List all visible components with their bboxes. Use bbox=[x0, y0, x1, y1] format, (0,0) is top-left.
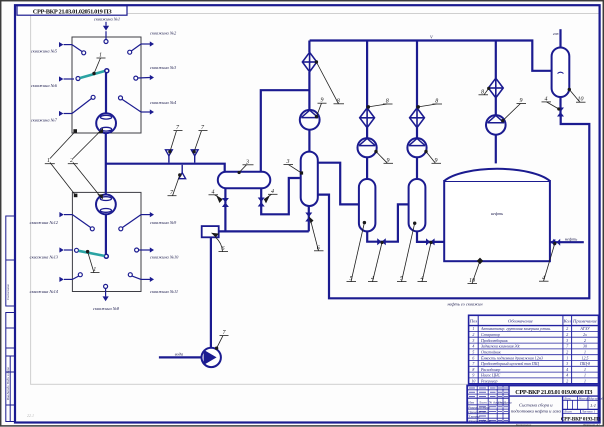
svg-text:Инв.№подл. Подп. и дата: Инв.№подл. Подп. и дата bbox=[6, 367, 10, 401]
wire: G bottom bbox=[559, 97, 561, 116]
leader flag1 bbox=[170, 131, 177, 152]
valve C-right bbox=[258, 198, 265, 207]
svg-text:4: 4 bbox=[545, 95, 548, 102]
selector 1 selected line (teal) bbox=[80, 71, 105, 78]
wire: drain collector y231 bbox=[219, 230, 309, 232]
spec table bbox=[469, 315, 599, 384]
valve before tank bbox=[426, 238, 435, 245]
svg-text:СРР-ВКР 21.03.01.02051.019 ПЗ: СРР-ВКР 21.03.01.02051.019 ПЗ bbox=[33, 8, 112, 15]
leader valve 5a bbox=[373, 243, 383, 282]
leader vessel B bbox=[288, 165, 301, 173]
leader pump 2 bbox=[376, 152, 388, 164]
leader pump 4 bbox=[503, 104, 521, 121]
svg-text:скважина №3: скважина №3 bbox=[150, 65, 177, 70]
svg-text:1: 1 bbox=[584, 351, 586, 355]
svg-text:9: 9 bbox=[520, 98, 523, 104]
vessel G level mark bbox=[558, 72, 564, 73]
wire: selector1 center to meter 1 bbox=[105, 73, 107, 114]
pump 3 bbox=[407, 138, 426, 157]
selector 2 left port 2 (selected) bbox=[59, 247, 78, 252]
valve between 5a 5b bbox=[377, 238, 386, 245]
selector 2 right port 1 bbox=[119, 212, 154, 231]
leader valve B bottom bbox=[310, 218, 319, 251]
marker square sel1 bbox=[73, 129, 77, 133]
svg-text:скважина №2: скважина №2 bbox=[150, 31, 177, 36]
stream labels bbox=[175, 31, 577, 357]
svg-text:3: 3 bbox=[472, 339, 474, 343]
selector 1 right port 2 bbox=[134, 75, 154, 80]
leader pump 1 bbox=[317, 103, 322, 116]
svg-text:Сепаратор: Сепаратор bbox=[481, 333, 500, 337]
drain box bbox=[202, 226, 219, 237]
svg-text:скважина №11: скважина №11 bbox=[150, 289, 178, 294]
svg-text:скважина №14: скважина №14 bbox=[30, 289, 59, 294]
marker triangle meter2 bbox=[97, 194, 103, 199]
position number texts bbox=[47, 53, 584, 337]
selector 2 center node bbox=[104, 254, 108, 258]
flow meter diamond 3 bbox=[410, 108, 425, 128]
svg-text:нефть со скважин: нефть со скважин bbox=[447, 302, 483, 307]
svg-text:2: 2 bbox=[472, 333, 474, 337]
wire: gas manifold bbox=[310, 41, 552, 71]
selector 2 body bbox=[72, 192, 141, 291]
leader diamond 4 bbox=[484, 88, 489, 94]
wire: box to pump bbox=[210, 237, 212, 348]
main stamp bbox=[467, 386, 598, 423]
valve B-bottom bbox=[305, 213, 312, 222]
svg-text:3: 3 bbox=[286, 159, 290, 165]
leader valve C left bbox=[215, 195, 223, 200]
svg-text:10: 10 bbox=[469, 278, 475, 284]
svg-text:скважина №1: скважина №1 bbox=[94, 17, 120, 22]
selector 1 right port 3 bbox=[119, 96, 155, 115]
svg-text:Расходомер: Расходомер bbox=[480, 368, 500, 372]
svg-text:Лист: Лист bbox=[478, 400, 487, 404]
valve under G bbox=[557, 108, 564, 117]
svg-text:4: 4 bbox=[472, 345, 474, 349]
separator C (horizontal vessel) bbox=[218, 172, 270, 188]
pump (bottom) bbox=[202, 348, 221, 367]
svg-text:1: 1 bbox=[584, 368, 586, 372]
svg-text:Лит.: Лит. bbox=[563, 397, 571, 401]
svg-text:Формат А1: Формат А1 bbox=[583, 423, 600, 427]
svg-text:10: 10 bbox=[578, 97, 584, 103]
selector 1 top port bbox=[103, 22, 109, 44]
wire: vessel B outlet B to bottom loop bbox=[318, 116, 590, 298]
leader drain box bbox=[216, 237, 223, 251]
svg-text:Иванов: Иванов bbox=[478, 410, 490, 414]
selector 1 left port 3 bbox=[59, 95, 95, 116]
svg-text:2: 2 bbox=[566, 380, 568, 384]
selector 2 left port 1 bbox=[59, 212, 94, 231]
wire: meter1 to meter2 bbox=[105, 133, 107, 195]
settling vessel 5b bbox=[409, 179, 426, 231]
flow meter diamond 4 bbox=[488, 78, 503, 98]
svg-text:Насос ЦНС: Насос ЦНС bbox=[480, 374, 501, 378]
valve tank inlet bbox=[553, 239, 560, 246]
svg-text:Резервуар: Резервуар bbox=[480, 380, 497, 384]
svg-text:2: 2 bbox=[566, 351, 568, 355]
svg-text:Копировал: Копировал bbox=[515, 423, 532, 427]
svg-text:4: 4 bbox=[421, 275, 424, 282]
svg-text:2х: 2х bbox=[583, 333, 587, 337]
svg-text:5: 5 bbox=[350, 276, 353, 282]
wire: pump suction bbox=[159, 356, 202, 358]
marker square sel2 bbox=[74, 194, 78, 198]
svg-text:скважина №5: скважина №5 bbox=[31, 49, 58, 54]
svg-text:скважина №7: скважина №7 bbox=[31, 118, 58, 123]
marker triangle meter1 bbox=[98, 128, 104, 133]
svg-text:Кол: Кол bbox=[563, 319, 571, 324]
svg-text:Разраб.: Разраб. bbox=[467, 405, 479, 409]
svg-text:Отстойник: Отстойник bbox=[481, 350, 501, 355]
svg-text:скважина №10: скважина №10 bbox=[150, 255, 179, 260]
svg-text:Пробоотборный щелевой тип ПЩ: Пробоотборный щелевой тип ПЩ bbox=[480, 361, 540, 366]
wire: vessel 5b bottom to tank bbox=[417, 231, 444, 242]
svg-text:нефть: нефть bbox=[491, 211, 503, 216]
well labels bbox=[30, 17, 180, 312]
meter separator 1 bbox=[96, 113, 116, 133]
leader sep C bbox=[239, 165, 246, 173]
pump 4 bbox=[486, 115, 506, 135]
wire: meter2 to center node 2 bbox=[105, 214, 107, 254]
svg-text:1: 1 bbox=[472, 327, 474, 331]
pump 1 bbox=[300, 110, 320, 130]
svg-text:СРР-ВКР 21.03.01 019.00.00 ПЗ: СРР-ВКР 21.03.01 019.00.00 ПЗ bbox=[515, 389, 593, 396]
svg-text:9: 9 bbox=[387, 158, 390, 164]
svg-text:Масштаб: Масштаб bbox=[588, 397, 604, 401]
svg-text:Листов 1: Листов 1 bbox=[581, 410, 596, 414]
leader vessel 5a bbox=[351, 223, 364, 282]
wire: capsule C gas offtake bbox=[261, 90, 309, 171]
svg-text:подготовки нефти и газа: подготовки нефти и газа bbox=[511, 408, 562, 413]
svg-text:8: 8 bbox=[435, 99, 438, 105]
svg-text:Задвижка клиновая 30с: Задвижка клиновая 30с bbox=[481, 345, 520, 349]
pump 2 bbox=[358, 138, 377, 157]
stamp small texts bbox=[467, 397, 603, 423]
svg-text:6: 6 bbox=[317, 245, 320, 251]
svg-text:скважина №9: скважина №9 bbox=[150, 220, 177, 225]
leader flag3 bbox=[173, 175, 180, 196]
svg-text:30: 30 bbox=[583, 345, 587, 349]
svg-text:Согласовано: Согласовано bbox=[6, 283, 10, 300]
svg-text:Ёмкость подземная дренажная 12: Ёмкость подземная дренажная 12м3 bbox=[480, 355, 543, 360]
leader diamond 3 bbox=[418, 104, 436, 107]
leader valve 5b bbox=[422, 243, 431, 282]
leader flag2 bbox=[194, 131, 201, 152]
svg-text:6: 6 bbox=[222, 246, 225, 252]
svg-text:Поз: Поз bbox=[469, 319, 478, 324]
svg-text:3: 3 bbox=[566, 339, 568, 343]
gas separator G bbox=[552, 48, 570, 98]
svg-text:2: 2 bbox=[70, 158, 73, 164]
svg-text:Пробоотборник: Пробоотборник bbox=[480, 339, 508, 343]
wire: capsule C left outlet bbox=[224, 188, 226, 231]
leader diamond 2 bbox=[368, 104, 387, 107]
wire: vessel 5a bottom to vessel 5b bbox=[367, 204, 409, 241]
svg-text:Петров: Петров bbox=[478, 405, 491, 409]
separator B (vertical vessel) bbox=[301, 152, 318, 206]
svg-text:1: 1 bbox=[99, 53, 102, 59]
svg-text:2: 2 bbox=[584, 339, 586, 343]
leader pos1 selectors bbox=[50, 132, 75, 159]
leader vessel 5b bbox=[402, 223, 415, 281]
svg-text:Система сбора и: Система сбора и bbox=[519, 402, 553, 407]
svg-text:Изм: Изм bbox=[467, 400, 475, 404]
wire: column 1 riser bbox=[308, 130, 310, 152]
svg-text:3: 3 bbox=[245, 159, 249, 165]
svg-text:9: 9 bbox=[435, 158, 438, 164]
svg-text:1:1: 1:1 bbox=[590, 403, 596, 408]
svg-text:2: 2 bbox=[566, 327, 568, 331]
sampling flag 2 bbox=[191, 150, 198, 163]
svg-text:1: 1 bbox=[93, 267, 96, 273]
svg-text:Обозначение: Обозначение bbox=[508, 319, 533, 324]
sampling flag 1 bbox=[166, 150, 173, 163]
selector 2 right port 3 bbox=[128, 273, 154, 282]
selector 1 body bbox=[72, 37, 141, 133]
svg-text:8: 8 bbox=[481, 89, 484, 95]
svg-text:скважина №12: скважина №12 bbox=[30, 220, 59, 225]
svg-text:ПЩ-8: ПЩ-8 bbox=[579, 362, 590, 366]
wire: column 4 riser bbox=[495, 135, 497, 164]
svg-text:Т.контр: Т.контр bbox=[468, 414, 480, 418]
svg-text:4: 4 bbox=[566, 374, 568, 378]
svg-text:9: 9 bbox=[321, 98, 324, 104]
selector 2 selected line (teal) bbox=[79, 251, 105, 256]
svg-text:газ: газ bbox=[553, 31, 559, 36]
svg-text:2: 2 bbox=[566, 333, 568, 337]
svg-text:10: 10 bbox=[471, 380, 475, 384]
valve C-left bbox=[222, 198, 229, 207]
svg-text:СРР-ВКР 0193-ПЗ: СРР-ВКР 0193-ПЗ bbox=[561, 417, 601, 423]
svg-text:4: 4 bbox=[566, 368, 568, 372]
svg-text:АГЗУ: АГЗУ bbox=[579, 327, 591, 331]
leader valve C right bbox=[264, 194, 272, 199]
leader tank valve bbox=[544, 244, 555, 282]
wire: capsule C right outlet to vessel B bbox=[261, 178, 300, 214]
leader pump 3 bbox=[426, 152, 436, 164]
svg-text:Автоматизир. групповая замерна: Автоматизир. групповая замерная устан. bbox=[480, 327, 551, 331]
selector 1 right port 1 bbox=[128, 41, 154, 54]
leader diamond 1 bbox=[316, 62, 338, 104]
leader pos2 meters bbox=[73, 132, 100, 159]
svg-text:Лист: Лист bbox=[563, 410, 572, 414]
selector 2 left port 3 bbox=[59, 273, 82, 282]
settling vessel 5a bbox=[359, 179, 376, 231]
selector 2 right port 2 bbox=[135, 247, 154, 252]
wire: vessel B bottom drain bbox=[308, 206, 310, 231]
svg-text:Дата: Дата bbox=[503, 400, 512, 404]
left margin box group A bbox=[6, 216, 15, 306]
svg-text:9: 9 bbox=[472, 374, 474, 378]
selector 2 bottom port bbox=[103, 284, 109, 301]
svg-text:вода: вода bbox=[175, 351, 184, 356]
selector 1 left port 1 bbox=[59, 42, 86, 55]
svg-text:4: 4 bbox=[542, 275, 545, 282]
svg-text:скважина №13: скважина №13 bbox=[30, 255, 59, 260]
svg-text:4: 4 bbox=[371, 275, 374, 282]
meter separator 2 bbox=[96, 195, 116, 215]
svg-text:Примечание: Примечание bbox=[572, 319, 597, 324]
svg-text:нефть: нефть bbox=[565, 236, 577, 241]
leader anchor dots bbox=[86, 60, 571, 350]
svg-text:3: 3 bbox=[566, 362, 568, 366]
svg-text:Масса: Масса bbox=[578, 397, 588, 401]
svg-text:4: 4 bbox=[212, 188, 215, 195]
svg-text:22.1: 22.1 bbox=[27, 413, 34, 418]
svg-text:1: 1 bbox=[584, 380, 586, 384]
svg-text:8: 8 bbox=[386, 99, 389, 105]
wire: gas vent up bbox=[559, 29, 561, 47]
svg-text:1: 1 bbox=[47, 158, 50, 164]
sampling flag 3 (down) bbox=[179, 165, 186, 179]
svg-text:Сидоров: Сидоров bbox=[479, 419, 492, 423]
svg-text:скважина №8: скважина №8 bbox=[93, 306, 120, 311]
svg-text:1: 1 bbox=[566, 356, 568, 360]
flow meter diamond 1 bbox=[302, 52, 316, 72]
wire: column 3 riser bbox=[416, 157, 418, 178]
svg-text:скважина №4: скважина №4 bbox=[150, 100, 177, 105]
wire: main collector from selectors bbox=[106, 164, 225, 171]
svg-text:6: 6 bbox=[472, 356, 474, 360]
leader sel1 line bbox=[94, 58, 101, 74]
wire: oil supply right bbox=[550, 241, 584, 243]
left margin box group B bbox=[6, 313, 15, 422]
svg-text:скважина №6: скважина №6 bbox=[31, 83, 58, 88]
leader valve G bbox=[547, 102, 559, 109]
svg-text:5: 5 bbox=[400, 276, 403, 282]
leader vessel G bbox=[569, 90, 580, 103]
leader sel2 line bbox=[88, 252, 94, 273]
top-left doc stamp box bbox=[17, 6, 127, 16]
tank inlet arrow bbox=[550, 239, 555, 245]
svg-text:4: 4 bbox=[271, 188, 274, 195]
oil tank bbox=[444, 169, 550, 261]
selector 1 center node bbox=[105, 69, 109, 73]
svg-text:5: 5 bbox=[472, 351, 474, 355]
wire: column 2 riser bbox=[366, 157, 368, 178]
svg-text:1: 1 bbox=[584, 374, 586, 378]
leader tank bbox=[472, 261, 480, 284]
selector 1 left port 2 (selected) bbox=[59, 76, 80, 81]
svg-text:8: 8 bbox=[337, 98, 340, 104]
leader pump bottom bbox=[217, 336, 223, 349]
svg-text:8: 8 bbox=[472, 368, 474, 372]
flow meter diamond 2 bbox=[360, 108, 375, 128]
wire: vessel B outlet A to vessel 5a bbox=[318, 163, 359, 205]
